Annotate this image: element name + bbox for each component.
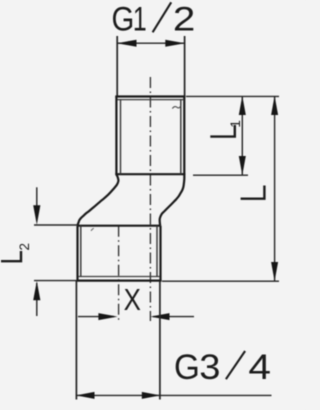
top thread minor line right bbox=[180, 100, 182, 175]
dimension G3/4: right arrow bbox=[142, 392, 161, 399]
dimension G1/2: left arrow bbox=[117, 40, 137, 47]
dimension G1/2: right extension line bbox=[184, 36, 186, 97]
right edge bbox=[183, 97, 185, 175]
dimension L2: top extension line bbox=[34, 224, 77, 226]
svg-text:1: 1 bbox=[133, 0, 147, 38]
dimension L: dimension line bbox=[274, 96, 276, 281]
bottom thread chamfer line bbox=[79, 276, 160, 278]
dimension L: top arrow bbox=[271, 96, 278, 115]
dimension L1: top arrow bbox=[239, 96, 246, 115]
bottom edge bbox=[76, 280, 161, 282]
svg-text:G: G bbox=[112, 0, 135, 38]
transition S-curve right bbox=[160, 174, 185, 226]
label L1 bbox=[210, 120, 243, 137]
dimension X: left tail line bbox=[78, 316, 114, 318]
dimension G3/4: left arrow bbox=[76, 392, 95, 399]
top edge (shoulder) bbox=[78, 225, 161, 227]
dimension L1: bottom arrow bbox=[239, 156, 246, 175]
top thread minor line left bbox=[120, 100, 122, 175]
dimension G3/4: right extension line bbox=[159, 281, 161, 400]
dimension L2: bottom extension line bbox=[34, 280, 77, 282]
top centerline (G1/2 axis) bbox=[149, 77, 151, 321]
thread runout tick (bottom section) bbox=[91, 228, 94, 231]
dimension X: right arrow (pointing left) bbox=[150, 313, 169, 320]
left edge bbox=[115, 97, 117, 175]
top thread body outline bbox=[115, 97, 185, 175]
transition S-curve left bbox=[78, 174, 119, 225]
top edge bbox=[115, 95, 185, 97]
bottom thread body outline bbox=[76, 226, 161, 281]
bottom centerline (G3/4 axis) bbox=[118, 226, 120, 321]
dimension L: bottom extension line bbox=[162, 280, 279, 282]
svg-text:3: 3 bbox=[199, 347, 220, 386]
left edge bbox=[76, 226, 78, 281]
dimension L: bottom arrow bbox=[271, 262, 278, 281]
dimension G1/2: dimension line bbox=[117, 42, 184, 44]
label G3/4 bbox=[174, 347, 271, 387]
svg-text:2: 2 bbox=[17, 243, 32, 251]
label G1/2 bbox=[112, 0, 196, 38]
dimension L1: bottom extension line bbox=[193, 174, 248, 176]
dimension G3/4: left extension line bbox=[75, 281, 77, 400]
dimension L2: bottom arrow (pointing up) bbox=[33, 281, 40, 300]
svg-text:G: G bbox=[174, 348, 200, 387]
dimension L2: top arrow (pointing down) bbox=[33, 205, 40, 225]
bottom thread minor line right bbox=[156, 226, 158, 277]
dimension L1: dimension line bbox=[241, 97, 243, 175]
bottom edge (shoulder) bbox=[115, 173, 185, 175]
dimension G1/2: left extension line bbox=[116, 36, 118, 97]
svg-text:1: 1 bbox=[228, 120, 243, 128]
dimension X: right tail line bbox=[153, 316, 194, 318]
thread runout tick (top section) bbox=[172, 106, 181, 109]
label L2 bbox=[1, 243, 32, 261]
dimension L2: lower dimension line (outside) bbox=[36, 283, 38, 316]
dimension G3/4: dimension line bbox=[76, 394, 271, 396]
svg-text:2: 2 bbox=[173, 0, 195, 38]
dimension L: top extension line bbox=[186, 95, 279, 97]
top thread chamfer line bbox=[118, 99, 184, 101]
svg-text:4: 4 bbox=[248, 349, 271, 388]
label L bbox=[241, 186, 265, 199]
dimension L2: upper dimension line (outside) bbox=[36, 187, 38, 207]
right edge bbox=[159, 226, 161, 281]
svg-text:X: X bbox=[124, 282, 141, 316]
dimension G1/2: right arrow bbox=[165, 40, 185, 47]
dimension X: left arrow (pointing right) bbox=[98, 313, 117, 320]
bottom thread minor line left bbox=[80, 226, 82, 277]
